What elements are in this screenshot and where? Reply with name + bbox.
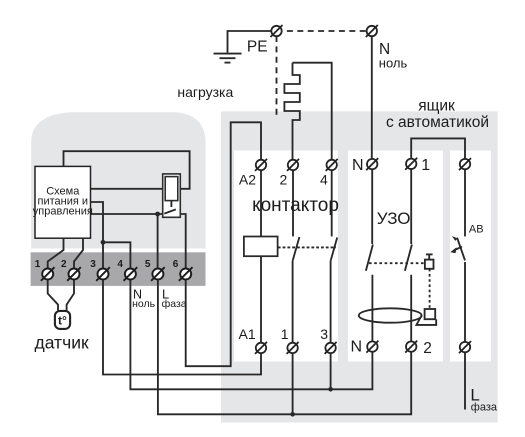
- svg-text:5: 5: [145, 259, 151, 270]
- svg-text:2: 2: [280, 172, 288, 188]
- svg-text:N: N: [352, 157, 364, 174]
- svg-text:датчик: датчик: [35, 333, 89, 353]
- svg-text:A1: A1: [239, 326, 256, 342]
- svg-text:4: 4: [117, 259, 123, 270]
- svg-text:3: 3: [90, 259, 96, 270]
- svg-text:t°: t°: [58, 314, 67, 328]
- svg-text:2: 2: [423, 340, 432, 357]
- svg-text:N: N: [351, 339, 363, 356]
- svg-text:3: 3: [320, 326, 328, 342]
- svg-text:УЗО: УЗО: [377, 209, 411, 228]
- svg-text:1: 1: [35, 259, 41, 270]
- svg-text:нагрузка: нагрузка: [177, 84, 233, 100]
- svg-text:фаза: фаза: [471, 402, 498, 414]
- svg-text:фаза: фаза: [162, 298, 187, 310]
- svg-text:ноль: ноль: [379, 55, 408, 70]
- svg-text:6: 6: [173, 259, 179, 270]
- svg-text:ящик: ящик: [418, 98, 455, 115]
- svg-text:ноль: ноль: [132, 298, 156, 310]
- svg-text:A2: A2: [239, 172, 256, 188]
- svg-text:PE: PE: [247, 39, 268, 56]
- svg-text:с автоматикой: с автоматикой: [386, 114, 489, 131]
- svg-text:1: 1: [281, 326, 289, 342]
- svg-text:управления: управления: [33, 206, 93, 218]
- svg-text:1: 1: [421, 157, 430, 174]
- svg-text:АВ: АВ: [469, 224, 484, 236]
- svg-text:контактор: контактор: [252, 195, 339, 216]
- svg-text:2: 2: [61, 259, 67, 270]
- svg-text:4: 4: [320, 172, 328, 188]
